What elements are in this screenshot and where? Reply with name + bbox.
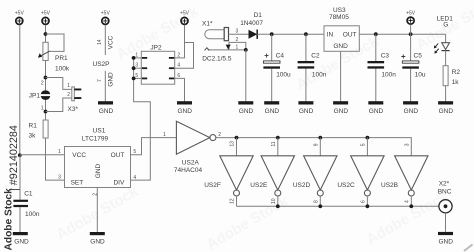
svg-text:OUT: OUT bbox=[343, 32, 357, 39]
svg-text:GND: GND bbox=[90, 239, 105, 246]
inverter US2C bbox=[337, 138, 384, 207]
node JP1 pin2 bbox=[44, 76, 48, 80]
wire US1 DIV up to JP2 select rail bbox=[131, 58, 151, 180]
node US2E input bbox=[276, 136, 280, 140]
wire JP1 pin2 to X3 pin1 bbox=[46, 78, 72, 90]
wire VCC node to US1 pin1 bbox=[20, 154, 65, 156]
svg-text:10u: 10u bbox=[415, 71, 426, 78]
wire X1 pin3 to D1 bbox=[229, 33, 249, 35]
wire output bus to BNC bbox=[237, 205, 439, 207]
svg-text:100k: 100k bbox=[55, 66, 70, 73]
node VCC junction bbox=[18, 153, 22, 157]
svg-text:C5: C5 bbox=[414, 52, 423, 59]
svg-text:US3: US3 bbox=[333, 7, 346, 14]
wire PR1 bottom to JP1 bbox=[45, 61, 47, 91]
node X1 ground bbox=[244, 48, 248, 52]
svg-text:G: G bbox=[443, 22, 448, 29]
node JP2 pin1 bbox=[132, 56, 136, 60]
ground (C1) bbox=[13, 232, 29, 246]
node US2C output bbox=[366, 204, 370, 208]
svg-text:US2C: US2C bbox=[337, 182, 355, 189]
svg-text:GND: GND bbox=[333, 43, 348, 50]
svg-text:GND: GND bbox=[107, 72, 114, 87]
capacitor C4 100u (polarized) bbox=[263, 34, 291, 101]
IC US1 LTC1799 bbox=[65, 128, 131, 188]
svg-text:US2A: US2A bbox=[182, 159, 200, 166]
wire JP2 pin3 stub bbox=[134, 67, 142, 69]
svg-text:GND: GND bbox=[438, 238, 453, 245]
svg-text:8: 8 bbox=[313, 200, 319, 203]
svg-text:D1: D1 bbox=[254, 12, 263, 19]
supply symbol +5V (rail 2) bbox=[41, 11, 51, 25]
node C2 tap bbox=[304, 32, 308, 36]
capacitor C2 100n bbox=[298, 34, 327, 101]
svg-text:100n: 100n bbox=[25, 211, 40, 218]
wire D1 to US3 IN (+V rail) bbox=[257, 33, 324, 35]
potentiometer PR1 100k bbox=[38, 42, 70, 72]
wire US3 OUT +5V rail bbox=[359, 33, 445, 35]
svg-text:IN: IN bbox=[327, 32, 334, 39]
svg-text:Adobe Stock: Adobe Stock bbox=[4, 188, 15, 251]
inverter US2F bbox=[204, 138, 253, 207]
inverter US2B bbox=[381, 143, 428, 206]
svg-text:100n: 100n bbox=[312, 71, 327, 78]
wire PR1 wiper loop bbox=[46, 34, 65, 51]
svg-text:1: 1 bbox=[236, 44, 239, 50]
svg-text:C1: C1 bbox=[24, 191, 33, 198]
node US2B output bbox=[409, 204, 413, 208]
svg-text:2: 2 bbox=[41, 80, 44, 86]
svg-text:+5V: +5V bbox=[180, 11, 190, 17]
wire US1 OUT to US2A input bbox=[131, 138, 177, 155]
svg-text:DC2.1/5.5: DC2.1/5.5 bbox=[202, 55, 232, 62]
wire US2P GND pin bbox=[104, 71, 106, 101]
diode D1 1N4007 bbox=[240, 12, 263, 39]
svg-text:100n: 100n bbox=[381, 71, 396, 78]
svg-text:US2B: US2B bbox=[381, 182, 398, 189]
pin header JP2 bbox=[141, 44, 174, 84]
ground (US2P) bbox=[98, 101, 114, 115]
svg-text:2: 2 bbox=[67, 92, 70, 98]
svg-text:LTC1799: LTC1799 bbox=[82, 135, 109, 142]
wire JP1 to R1 bbox=[45, 100, 47, 120]
svg-text:1: 1 bbox=[41, 106, 44, 112]
node JP1 pin1 bbox=[44, 110, 48, 114]
node JP2 pin3 bbox=[132, 66, 136, 70]
svg-text:BNC: BNC bbox=[438, 189, 452, 196]
capacitor C3 100n bbox=[368, 34, 397, 101]
wire +5V to JP2 pin2 bbox=[175, 25, 185, 58]
wire JP2 pin6 to ground bbox=[175, 78, 185, 101]
svg-text:VCC: VCC bbox=[107, 35, 114, 49]
svg-text:US2P: US2P bbox=[93, 61, 110, 68]
resistor R1 3k bbox=[29, 120, 49, 140]
svg-text:GND: GND bbox=[239, 108, 254, 115]
inverter US2A 74HAC04 bbox=[174, 121, 216, 174]
svg-text:1N4007: 1N4007 bbox=[240, 20, 263, 27]
svg-text:JP2: JP2 bbox=[150, 44, 162, 51]
svg-text:3: 3 bbox=[404, 143, 410, 146]
node C4 tap bbox=[270, 32, 274, 36]
node JP2 pin5 bbox=[132, 77, 136, 81]
svg-text:100u: 100u bbox=[276, 71, 291, 78]
svg-text:GND: GND bbox=[439, 108, 454, 115]
svg-text:11: 11 bbox=[271, 141, 277, 146]
ground (X2) bbox=[438, 232, 453, 246]
svg-text:+5V: +5V bbox=[406, 10, 416, 16]
ground (C4) bbox=[264, 101, 279, 115]
jumper JP1 bbox=[29, 90, 51, 100]
wire +5V rail2 down to PR1 bbox=[45, 25, 47, 43]
svg-text:+5V: +5V bbox=[15, 11, 25, 17]
svg-text:2: 2 bbox=[218, 132, 221, 138]
node US2D input bbox=[318, 136, 322, 140]
node PR1 top bbox=[44, 32, 48, 36]
wire R1 to US1 SET bbox=[46, 138, 65, 180]
wire US3 GND down bbox=[340, 51, 342, 101]
connector X2 BNC bbox=[438, 180, 452, 232]
corner watermark fragment bbox=[464, 245, 473, 252]
svg-text:+5V: +5V bbox=[41, 11, 51, 17]
svg-text:1: 1 bbox=[163, 132, 166, 138]
node US2D output bbox=[318, 204, 322, 208]
ground (C5) bbox=[403, 101, 418, 115]
svg-text:X2*: X2* bbox=[439, 180, 450, 187]
svg-text:GND: GND bbox=[369, 108, 384, 115]
svg-text:3: 3 bbox=[58, 175, 61, 181]
svg-text:14: 14 bbox=[97, 39, 103, 45]
wire JP2 pin5 stub bbox=[134, 77, 142, 79]
supply symbol +5V (JP2) bbox=[180, 11, 190, 25]
svg-text:+5V: +5V bbox=[101, 11, 111, 17]
Adobe Stock side watermark bbox=[4, 125, 20, 250]
node US2E output bbox=[276, 204, 280, 208]
svg-text:PR1: PR1 bbox=[55, 55, 68, 62]
svg-text:SET: SET bbox=[71, 180, 84, 187]
svg-text:X1*: X1* bbox=[202, 20, 213, 27]
svg-text:US1: US1 bbox=[93, 128, 106, 135]
svg-text:9: 9 bbox=[313, 143, 319, 146]
capacitor C5 10u (polarized) bbox=[401, 34, 426, 101]
svg-text:78M05: 78M05 bbox=[329, 14, 349, 21]
svg-text:GND: GND bbox=[177, 108, 192, 115]
node US2C input bbox=[366, 136, 370, 140]
svg-text:GND: GND bbox=[95, 163, 102, 178]
wire US2A output bus to gate inputs bbox=[216, 138, 411, 156]
svg-text:1k: 1k bbox=[452, 79, 460, 86]
ground (US1) bbox=[90, 232, 105, 246]
wire US2P VCC pin bbox=[104, 25, 106, 55]
node C5 / +5V tap bbox=[409, 32, 413, 36]
svg-text:JP1: JP1 bbox=[29, 93, 41, 100]
supply symbol +5V (US2 power pin) bbox=[101, 11, 111, 25]
inverter US2D bbox=[293, 138, 337, 207]
dc jack X1 bbox=[202, 20, 246, 62]
svg-text:4: 4 bbox=[404, 200, 410, 203]
svg-text:GND: GND bbox=[265, 108, 280, 115]
wire X1 ground down bbox=[245, 50, 247, 102]
svg-text:X3*: X3* bbox=[68, 106, 79, 113]
supply symbol +5V (rail 1) bbox=[15, 11, 25, 25]
ground (C3) bbox=[368, 101, 383, 115]
svg-text:GND: GND bbox=[334, 108, 349, 115]
svg-text:10: 10 bbox=[271, 198, 277, 204]
svg-text:5: 5 bbox=[361, 143, 367, 146]
svg-text:| #921402284: | #921402284 bbox=[8, 125, 20, 191]
wire +5V rail1 down to US1 VCC node bbox=[19, 25, 21, 156]
ground (C2) bbox=[298, 101, 313, 115]
svg-text:R1: R1 bbox=[29, 122, 38, 129]
voltage regulator US3 78M05 bbox=[324, 7, 359, 52]
ground (R2) bbox=[438, 101, 453, 115]
connector X3 bbox=[67, 83, 81, 113]
svg-text:GND: GND bbox=[14, 239, 29, 246]
capacitor C1 bbox=[13, 155, 39, 232]
svg-text:R2: R2 bbox=[452, 69, 461, 76]
svg-text:13: 13 bbox=[230, 141, 236, 147]
svg-text:2: 2 bbox=[236, 37, 239, 43]
svg-text:1: 1 bbox=[67, 83, 70, 89]
wire JP1 pin1 to X3 pin2 bbox=[46, 98, 72, 112]
svg-text:C3: C3 bbox=[381, 52, 390, 59]
svg-text:US2E: US2E bbox=[250, 182, 268, 189]
svg-text:3: 3 bbox=[236, 29, 239, 35]
ground (US3) bbox=[333, 101, 348, 115]
svg-text:US2F: US2F bbox=[204, 182, 221, 189]
svg-text:GND: GND bbox=[299, 108, 314, 115]
wire US1 GND down bbox=[96, 188, 98, 233]
svg-text:VCC: VCC bbox=[72, 152, 86, 159]
svg-text:GND: GND bbox=[99, 108, 114, 115]
svg-text:3k: 3k bbox=[29, 133, 37, 140]
svg-text:C4: C4 bbox=[276, 52, 285, 59]
svg-text:12: 12 bbox=[230, 198, 236, 204]
svg-text:6: 6 bbox=[361, 200, 367, 203]
svg-text:GND: GND bbox=[404, 108, 419, 115]
ground (JP2 pin6) bbox=[177, 101, 192, 115]
resistor R2 1k bbox=[443, 66, 460, 102]
svg-text:C2: C2 bbox=[311, 52, 320, 59]
svg-text:US2D: US2D bbox=[293, 182, 311, 189]
supply symbol +5V (regulator output) bbox=[406, 10, 416, 34]
inverter US2E bbox=[250, 138, 294, 207]
svg-text:1: 1 bbox=[58, 149, 61, 155]
LED1 bbox=[434, 15, 453, 65]
node C3 tap bbox=[374, 32, 378, 36]
svg-text:DIV: DIV bbox=[113, 180, 125, 187]
ground (X1) bbox=[238, 101, 253, 115]
wire JP2 pin4 to +5V branch bbox=[175, 43, 194, 69]
node US2F input bbox=[235, 136, 239, 140]
svg-text:7: 7 bbox=[97, 79, 103, 82]
svg-text:OUT: OUT bbox=[111, 152, 125, 159]
svg-text:74HAC04: 74HAC04 bbox=[174, 167, 203, 174]
wire JP2 pin1 stub bbox=[134, 57, 142, 59]
